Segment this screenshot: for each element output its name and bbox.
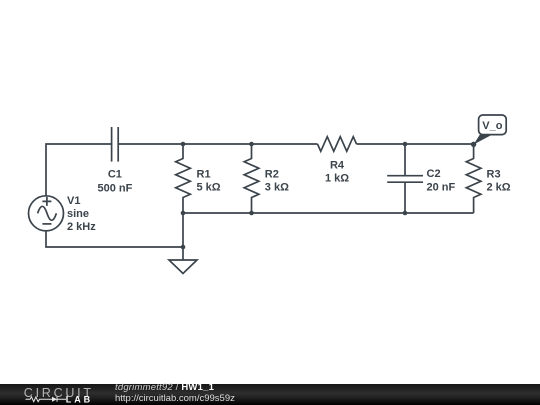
svg-text:V_o: V_o: [482, 120, 502, 132]
wire R4 to node V_o: [357, 143, 474, 145]
node dot R1 top: [181, 142, 186, 147]
svg-text:R1: R1: [197, 169, 211, 181]
svg-text:C1: C1: [108, 169, 122, 181]
svg-text:V1: V1: [67, 195, 80, 207]
svg-text:500 nF: 500 nF: [97, 182, 132, 194]
label R3 value: [487, 169, 511, 194]
node dot C2 top: [403, 142, 408, 147]
svg-text:LAB: LAB: [66, 395, 93, 405]
CircuitLab logo: [22, 384, 102, 405]
label R2 value: [265, 169, 289, 194]
svg-text:2 kHz: 2 kHz: [67, 221, 96, 233]
wire middle bus: [183, 212, 474, 214]
svg-text:2 kΩ: 2 kΩ: [487, 181, 511, 193]
label R4 value: [325, 160, 349, 185]
flag V_o: [474, 115, 507, 145]
capacitor C2: [387, 144, 423, 213]
footer url line: [115, 394, 235, 404]
node V_o dot: [471, 142, 476, 147]
svg-text:5 kΩ: 5 kΩ: [197, 181, 221, 193]
svg-text:R3: R3: [487, 169, 501, 181]
resistor R2: [244, 144, 259, 213]
resistor R1: [176, 144, 191, 213]
svg-text:sine: sine: [67, 208, 89, 220]
svg-text:3 kΩ: 3 kΩ: [265, 181, 289, 193]
node dot R2 top: [249, 142, 254, 147]
footer bar: [0, 384, 540, 405]
node dot R2 bottom: [249, 211, 254, 216]
wire top-left: V1 top up and right to C1: [46, 144, 112, 196]
svg-text:R2: R2: [265, 169, 279, 181]
label R1 value: [197, 169, 221, 194]
source V1: [29, 196, 64, 231]
ground: [169, 213, 197, 274]
resistor R4: [318, 137, 357, 152]
svg-text:20 nF: 20 nF: [427, 181, 456, 193]
label V1 value: [67, 195, 96, 233]
wire V1 bottom to ground node: [46, 231, 183, 247]
capacitor C1: [112, 127, 119, 162]
label C2 value: [427, 168, 456, 194]
resistor R3: [466, 144, 481, 213]
wire C1 to R4: [118, 143, 317, 145]
label C1 value: [97, 169, 132, 195]
svg-text:R4: R4: [330, 160, 345, 172]
node dot C2 bottom: [403, 211, 408, 216]
footer credit line: [115, 383, 214, 393]
svg-text:1 kΩ: 1 kΩ: [325, 172, 349, 184]
node dot ground junction: [181, 245, 186, 250]
node dot R1 bottom: [181, 211, 186, 216]
svg-text:C2: C2: [427, 168, 441, 180]
